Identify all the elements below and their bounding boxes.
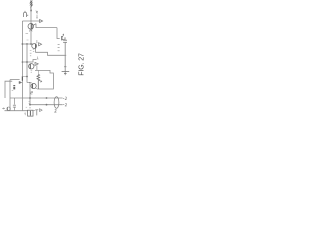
resistor R2 <box>37 74 40 89</box>
label 28a <box>31 91 33 94</box>
node E <box>29 104 31 106</box>
arrow terminal mid <box>39 43 42 46</box>
node C <box>22 61 24 63</box>
wire h21 <box>22 20 39 22</box>
small dashes labels between buses <box>26 34 29 40</box>
component block <box>13 85 15 86</box>
arrow right bottom <box>40 109 43 112</box>
wire jog x27 to x30 <box>27 82 30 84</box>
wire h44 <box>22 43 33 45</box>
junction blob on bus <box>21 76 23 80</box>
node F <box>22 43 24 45</box>
label 2 <box>37 57 39 60</box>
node H <box>26 76 28 78</box>
transistor Q2 <box>28 23 36 31</box>
wire h81.2 <box>5 81 12 98</box>
node J <box>46 104 48 106</box>
node A <box>26 43 28 45</box>
wire vertical x31 <box>30 9 32 44</box>
component box bottom <box>28 110 33 116</box>
resistor R1 <box>30 1 32 9</box>
node G <box>26 61 28 63</box>
wire h62 <box>22 60 36 63</box>
ground symbol x65 <box>62 67 70 75</box>
transistor Q5 <box>29 64 34 69</box>
label mark left of box <box>25 113 26 116</box>
arrow wiper <box>39 80 41 82</box>
transistor Q3 <box>62 34 65 41</box>
wire step y70/73 loop <box>35 70 53 89</box>
label dashes left <box>30 51 32 56</box>
bottom bus <box>5 110 28 112</box>
wire box to T <box>33 110 35 112</box>
wire v x65 <box>64 42 66 71</box>
label 21 with leader arrow <box>36 11 38 19</box>
label 28b below ellipse <box>54 109 56 112</box>
tiny mark above box <box>26 106 27 108</box>
transistor Q4 (mid) <box>32 44 37 49</box>
base tick Q6 <box>29 82 32 84</box>
label 28 <box>63 103 67 106</box>
wire v x57 corner <box>57 28 60 39</box>
node B <box>30 43 32 45</box>
component block lower <box>13 87 15 89</box>
bus vertical x27 <box>26 44 28 83</box>
wire emitter down <box>36 65 38 70</box>
svg-text:FIG. 27: FIG. 27 <box>78 53 85 76</box>
label marks <box>33 50 35 52</box>
leader arrow into box <box>29 107 30 109</box>
wire collector riser to h27.6 <box>36 24 57 28</box>
capacitor C1 <box>13 98 16 111</box>
arrow terminal Q5 <box>35 62 38 65</box>
cable ellipse <box>54 97 59 109</box>
wire emitter to h89 <box>36 88 38 89</box>
wire stub R2 top <box>37 70 39 74</box>
wire h98 long <box>10 97 63 99</box>
wire step y52/55 <box>36 48 67 55</box>
wire bus to x27 <box>22 76 27 78</box>
label marks under Q5 <box>31 71 33 73</box>
input arrow terminal <box>40 20 43 23</box>
emitter arrow into bus <box>19 81 22 83</box>
dashes label 26 <box>58 44 60 50</box>
wire h104.7 <box>30 104 63 106</box>
T symbol <box>35 110 38 116</box>
leader arrow small <box>36 40 37 44</box>
transistor Q1 arch <box>24 11 29 17</box>
transistor Q6 <box>31 83 36 88</box>
label 29 <box>63 97 67 100</box>
wire vertical x10 <box>9 80 11 111</box>
node I <box>46 97 48 99</box>
capacitor C2 on x65 <box>63 37 67 42</box>
label 8 top of box <box>29 102 30 104</box>
left wires: h79.6 <box>10 79 20 81</box>
bus vertical x30 low <box>29 83 31 106</box>
node dot below R1 <box>30 10 32 12</box>
bus wire left vertical x22 <box>21 21 23 111</box>
label mark <box>12 89 14 91</box>
node D <box>29 97 31 99</box>
arrow label left <box>2 108 5 109</box>
transistor Q7 <box>7 107 10 110</box>
